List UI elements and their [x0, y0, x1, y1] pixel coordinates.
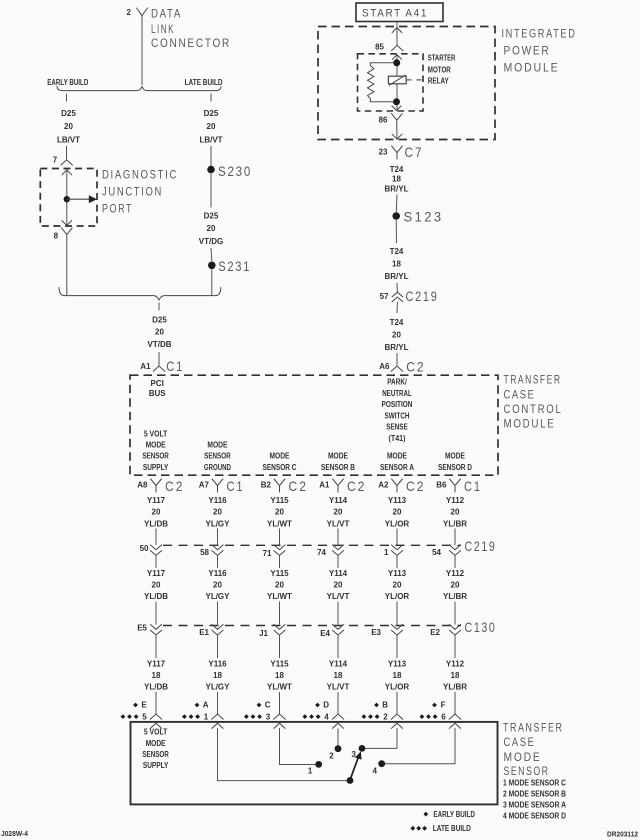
svg-text:SENSOR: SENSOR	[204, 452, 231, 461]
svg-text:Y117: Y117	[147, 659, 166, 668]
connector C130 pin E2 (double chevron)	[430, 602, 460, 659]
svg-text:RELAY: RELAY	[428, 77, 450, 86]
connector C219 pin 57 (double chevron up)	[392, 292, 403, 297]
svg-text:18: 18	[152, 671, 161, 680]
relay coil (rectangle with diagonal)	[388, 76, 406, 84]
svg-text:MODE: MODE	[207, 441, 228, 450]
svg-text:MODE: MODE	[146, 739, 167, 748]
connector C7 (Y)	[392, 146, 403, 159]
svg-text:J028W-4: J028W-4	[1, 829, 28, 838]
svg-text:20: 20	[207, 122, 216, 131]
svg-text:MOTOR: MOTOR	[428, 66, 451, 75]
relay wire bottom	[396, 84, 398, 111]
svg-text:C2: C2	[406, 478, 426, 494]
svg-text:A8: A8	[137, 481, 148, 490]
connector C130 pin E5 (double chevron)	[137, 602, 161, 659]
contact 4 dot	[378, 760, 385, 767]
svg-text:1: 1	[308, 766, 313, 775]
arrow into IPM top edge	[392, 28, 402, 33]
svg-text:C2: C2	[289, 478, 309, 494]
wire label T24 18 BR/YL (1)	[385, 165, 409, 194]
connector C219 pin 1 (double chevron)	[384, 529, 403, 569]
connector C219 pin 58 (double chevron)	[200, 529, 223, 569]
svg-text:MODE: MODE	[445, 452, 466, 461]
wire into sensor pin A	[212, 692, 224, 728]
svg-text:YL/WT: YL/WT	[267, 519, 292, 528]
module pin A7 connector C1 (Y)	[199, 478, 245, 494]
integrated power module dashed box	[318, 27, 495, 140]
svg-text:YL/WT: YL/WT	[267, 592, 292, 601]
contact 1 dot	[315, 761, 322, 768]
sensor pin B/2 labels with build diamonds	[362, 701, 389, 722]
svg-text:20: 20	[213, 581, 222, 590]
wiper lever with arrowhead	[350, 757, 359, 781]
connector pin 2 Y symbol	[137, 8, 148, 20]
connector C219 pin 50 (double chevron)	[140, 529, 162, 569]
svg-text:CASE: CASE	[504, 389, 536, 401]
svg-text:S230: S230	[218, 163, 252, 179]
label TRANSFER CASE MODE SENSOR	[503, 722, 564, 778]
wire late build down to merge brace	[211, 269, 213, 295]
svg-text:85: 85	[375, 43, 384, 52]
svg-text:SENSOR B: SENSOR B	[321, 463, 355, 472]
svg-text:20: 20	[334, 581, 343, 590]
svg-text:E2: E2	[430, 628, 440, 637]
svg-text:7: 7	[53, 156, 58, 165]
svg-text:3 MODE SENSOR A: 3 MODE SENSOR A	[503, 800, 566, 809]
svg-text:BR/YL: BR/YL	[385, 272, 409, 281]
svg-text:LB/VT: LB/VT	[199, 135, 222, 144]
svg-text:C1: C1	[227, 478, 245, 494]
svg-text:74: 74	[317, 548, 326, 557]
svg-text:B6: B6	[436, 481, 447, 490]
svg-text:T24: T24	[390, 247, 404, 256]
wiper pivot dot	[347, 777, 354, 784]
svg-text:Y112: Y112	[446, 569, 465, 578]
svg-text:CONTROL: CONTROL	[504, 404, 563, 416]
svg-text:YL/BR: YL/BR	[443, 592, 467, 601]
module pin B2 connector C2 (Y)	[261, 478, 308, 494]
sensor wire to contact 1	[280, 728, 319, 764]
svg-text:Y112: Y112	[446, 496, 465, 505]
svg-text:57: 57	[380, 292, 389, 301]
pin 7 entry connector (inverted Y)	[61, 160, 73, 165]
svg-text:D25: D25	[61, 109, 76, 118]
label DIAGNOSTIC JUNCTION PORT	[102, 169, 178, 215]
svg-text:T24: T24	[390, 165, 404, 174]
svg-text:6: 6	[441, 712, 446, 721]
svg-text:SUPPLY: SUPPLY	[143, 761, 169, 770]
svg-text:MODULE: MODULE	[504, 418, 556, 430]
svg-text:A: A	[203, 701, 209, 710]
svg-text:20: 20	[392, 330, 401, 339]
svg-text:86: 86	[379, 116, 388, 125]
label PARK/NEUTRAL POSITION SWITCH SENSE (T41)	[382, 378, 413, 444]
svg-text:VT/DB: VT/DB	[148, 340, 172, 349]
svg-text:C7: C7	[405, 144, 424, 160]
svg-text:J1: J1	[259, 629, 268, 638]
svg-text:NEUTRAL: NEUTRAL	[382, 389, 412, 398]
svg-text:MODE: MODE	[146, 441, 167, 450]
svg-text:Y114: Y114	[329, 659, 348, 668]
svg-text:C2: C2	[347, 478, 367, 494]
svg-text:YL/GY: YL/GY	[205, 683, 230, 692]
svg-text:DR203112: DR203112	[607, 829, 638, 838]
wire stub below merge	[158, 303, 160, 311]
svg-text:20: 20	[393, 508, 402, 517]
svg-text:20: 20	[275, 581, 284, 590]
transfer case mode sensor box	[131, 722, 498, 805]
module pin B6 connector C1 (Y)	[436, 478, 482, 494]
wire down to C219 pin 57	[396, 283, 398, 292]
pin 86 exit arrow inside relay box	[392, 106, 401, 111]
svg-text:S231: S231	[218, 258, 251, 274]
svg-text:Y115: Y115	[270, 496, 289, 505]
svg-text:TRANSFER: TRANSFER	[504, 375, 562, 387]
svg-text:C219: C219	[406, 288, 439, 304]
svg-text:2 MODE SENSOR B: 2 MODE SENSOR B	[503, 789, 566, 798]
wire labels (18 gauge)	[144, 659, 467, 691]
C219 connector dashed row line	[163, 544, 461, 546]
svg-text:SUPPLY: SUPPLY	[143, 463, 169, 472]
svg-text:1: 1	[384, 548, 389, 557]
wire labels (20 gauge, below C219)	[144, 569, 467, 601]
wire below S123	[395, 220, 397, 243]
svg-text:D25: D25	[204, 212, 219, 221]
svg-text:PORT: PORT	[102, 203, 133, 215]
wire label T24 18 BR/YL (2)	[385, 247, 409, 281]
wire below C219 pin 57	[396, 302, 398, 313]
pin 85 entry arrow inside relay box	[392, 55, 401, 60]
wire from START A41 into integrated power module	[396, 22, 398, 46]
svg-text:18: 18	[451, 671, 460, 680]
sensor ground wire to wiper pivot	[218, 728, 350, 780]
svg-text:C219: C219	[465, 538, 497, 554]
wire down to splice S123	[395, 195, 398, 213]
svg-text:Y116: Y116	[208, 659, 227, 668]
svg-text:E3: E3	[371, 628, 381, 637]
pin 86 connector (Y)	[391, 114, 402, 127]
svg-text:20: 20	[155, 328, 164, 337]
connector C130 pin E3 (double chevron)	[371, 602, 402, 659]
svg-text:18: 18	[392, 260, 401, 269]
wire from data link connector down	[141, 20, 143, 85]
relay coil resistor zigzag	[368, 63, 374, 102]
svg-text:CASE: CASE	[504, 737, 536, 749]
sensor pin F/6 labels with build diamonds	[420, 701, 447, 722]
svg-text:4: 4	[373, 766, 378, 775]
svg-text:D25: D25	[152, 315, 167, 324]
legend mode sensor contacts	[503, 778, 566, 820]
svg-text:20: 20	[451, 581, 460, 590]
legend LATE BUILD diamonds	[410, 824, 471, 833]
svg-text:71: 71	[263, 549, 272, 558]
svg-text:20: 20	[213, 508, 222, 517]
svg-text:YL/VT: YL/VT	[327, 683, 350, 692]
svg-text:BR/YL: BR/YL	[385, 185, 409, 194]
splice S123	[392, 212, 400, 220]
connector C2 at pin A6 (inverted Y)	[391, 366, 403, 371]
relay wire top	[396, 55, 398, 77]
svg-text:LINK: LINK	[151, 24, 175, 36]
svg-text:SENSOR A: SENSOR A	[380, 463, 414, 472]
svg-text:YL/OR: YL/OR	[385, 519, 410, 528]
exit arrow at IPM bottom edge	[392, 134, 402, 139]
svg-text:T24: T24	[390, 318, 404, 327]
svg-text:18: 18	[393, 671, 402, 680]
svg-text:PARK/: PARK/	[387, 378, 407, 387]
label PCI BUS	[149, 379, 167, 398]
relay bottom junction dot	[393, 98, 400, 105]
svg-text:Y113: Y113	[388, 659, 407, 668]
connector C130 pin E1 (double chevron)	[199, 602, 223, 659]
svg-text:PCI: PCI	[151, 379, 164, 388]
svg-text:DATA: DATA	[151, 8, 182, 20]
svg-text:INTEGRATED: INTEGRATED	[502, 29, 577, 41]
svg-text:1 MODE SENSOR C: 1 MODE SENSOR C	[503, 778, 566, 787]
svg-text:50: 50	[140, 544, 149, 553]
connector C1 at pin A1 (inverted Y)	[153, 366, 165, 371]
svg-text:YL/GY: YL/GY	[205, 592, 230, 601]
sensor wire to contact 4	[382, 728, 455, 763]
svg-text:20: 20	[451, 508, 460, 517]
svg-text:C130: C130	[465, 619, 497, 635]
svg-text:YL/DB: YL/DB	[144, 592, 168, 601]
svg-text:START A41: START A41	[362, 8, 428, 20]
C130 connector dashed row line	[163, 625, 461, 627]
svg-text:POWER: POWER	[504, 45, 551, 57]
svg-text:A2: A2	[378, 481, 389, 490]
wire from relay to IPM bottom edge	[396, 127, 398, 139]
svg-text:A6: A6	[379, 362, 390, 371]
resistor bottom lead	[370, 101, 393, 103]
module pin A2 connector C2 (Y)	[378, 478, 425, 494]
junction dot inside diagnostic junction port	[64, 196, 70, 202]
svg-text:23: 23	[379, 147, 388, 156]
svg-text:8: 8	[54, 231, 59, 240]
wire label D25 20 VT/DB	[148, 315, 172, 349]
svg-text:B2: B2	[261, 481, 272, 490]
svg-text:BUS: BUS	[149, 389, 167, 398]
brace splitting early/late build branches	[57, 87, 221, 91]
wire down to module pin A6	[396, 353, 398, 366]
svg-text:YL/DB: YL/DB	[144, 683, 168, 692]
sensor wire to contact 2	[337, 728, 339, 748]
svg-text:MODE: MODE	[504, 752, 542, 764]
connector C130 pin J1 (double chevron)	[259, 602, 285, 659]
svg-text:MODE: MODE	[328, 452, 349, 461]
svg-text:3: 3	[266, 712, 271, 721]
svg-text:2: 2	[329, 752, 334, 761]
svg-text:5: 5	[142, 712, 147, 721]
wire into sensor pin B	[391, 692, 403, 728]
svg-text:Y114: Y114	[329, 496, 348, 505]
svg-text:Y115: Y115	[270, 659, 289, 668]
svg-text:E5: E5	[137, 623, 147, 632]
label 5 VOLT MODE SENSOR SUPPLY (in sensor)	[142, 728, 169, 771]
svg-text:JUNCTION: JUNCTION	[102, 186, 163, 198]
svg-text:F: F	[441, 701, 446, 710]
svg-text:20: 20	[152, 508, 161, 517]
svg-text:Y116: Y116	[208, 496, 227, 505]
wire label D25 20 VT/DG	[199, 212, 223, 246]
wire label D25 20 LB/VT (early)	[57, 109, 80, 144]
label DATA LINK CONNECTOR	[151, 8, 231, 50]
connector C219 pin 71 (double chevron)	[263, 529, 286, 569]
svg-text:CONNECTOR: CONNECTOR	[151, 38, 231, 50]
svg-text:POSITION: POSITION	[382, 400, 413, 409]
svg-text:SENSOR: SENSOR	[142, 750, 169, 759]
wire down to module pin A1	[158, 352, 160, 366]
splice S230	[207, 166, 215, 174]
svg-text:SENSOR C: SENSOR C	[263, 463, 297, 472]
contact 2 dot	[335, 745, 342, 752]
svg-text:YL/DB: YL/DB	[144, 519, 168, 528]
svg-text:SENSOR D: SENSOR D	[438, 463, 472, 472]
svg-text:Y117: Y117	[147, 496, 166, 505]
brace merging branches	[59, 288, 221, 300]
svg-text:DIAGNOSTIC: DIAGNOSTIC	[102, 169, 178, 181]
connector C130 pin E4 (double chevron)	[320, 602, 343, 659]
arrow from junction to port (right)	[67, 198, 92, 200]
svg-text:B: B	[382, 701, 388, 710]
svg-text:A1: A1	[140, 362, 151, 371]
svg-text:4 MODE SENSOR D: 4 MODE SENSOR D	[503, 811, 566, 820]
contact 3 dot	[359, 745, 366, 752]
svg-text:SWITCH: SWITCH	[385, 411, 410, 420]
label TRANSFER CASE CONTROL MODULE	[504, 375, 563, 431]
wire label T24 20 BR/YL	[385, 318, 409, 352]
svg-text:Y115: Y115	[270, 569, 289, 578]
sensor wire to contact 3	[361, 728, 397, 748]
svg-text:C: C	[265, 701, 271, 710]
connector C219 pin 54 (double chevron)	[432, 529, 461, 569]
svg-text:5 VOLT: 5 VOLT	[144, 429, 168, 438]
svg-text:S123: S123	[404, 209, 444, 225]
wire late build down to splice S230	[210, 146, 212, 166]
svg-text:LATE BUILD: LATE BUILD	[433, 824, 471, 833]
START A41 box	[356, 3, 443, 22]
diagnostic junction port dashed box	[40, 169, 97, 227]
svg-text:YL/VT: YL/VT	[327, 519, 350, 528]
starter motor relay dashed box	[358, 54, 424, 111]
svg-text:18: 18	[334, 671, 343, 680]
svg-text:4: 4	[324, 712, 329, 721]
svg-text:SENSE: SENSE	[386, 423, 408, 432]
module output labels	[142, 429, 472, 472]
legend EARLY BUILD diamond	[423, 810, 475, 819]
transfer case control module dashed box	[130, 375, 498, 475]
resistor top lead	[370, 62, 394, 64]
svg-text:YL/GY: YL/GY	[205, 519, 230, 528]
svg-text:LATE BUILD: LATE BUILD	[185, 78, 223, 87]
svg-text:54: 54	[432, 548, 441, 557]
svg-text:E1: E1	[199, 628, 209, 637]
svg-text:LB/VT: LB/VT	[57, 135, 80, 144]
wire into sensor pin D	[332, 692, 344, 728]
relay top junction dot	[393, 59, 400, 66]
svg-text:20: 20	[393, 581, 402, 590]
splice S231	[208, 262, 216, 270]
svg-text:YL/OR: YL/OR	[385, 683, 410, 692]
wire stub late build	[210, 94, 212, 102]
svg-text:A7: A7	[199, 481, 210, 490]
wire early build down to merge brace	[66, 241, 68, 295]
svg-text:C2: C2	[406, 359, 426, 375]
svg-text:Y113: Y113	[388, 569, 407, 578]
svg-text:Y114: Y114	[329, 569, 348, 578]
svg-text:18: 18	[213, 671, 222, 680]
svg-text:EARLY BUILD: EARLY BUILD	[47, 78, 88, 87]
svg-text:EARLY BUILD: EARLY BUILD	[433, 810, 475, 819]
svg-text:MODE: MODE	[270, 452, 291, 461]
svg-text:C2: C2	[165, 478, 185, 494]
svg-text:VT/DG: VT/DG	[199, 237, 223, 246]
wire inside diagnostic junction port	[66, 170, 68, 226]
svg-text:MODULE: MODULE	[504, 62, 560, 74]
svg-text:Y112: Y112	[446, 659, 465, 668]
wire into sensor pin F	[449, 692, 461, 728]
pin 8 exit arrow inside box	[62, 221, 72, 226]
svg-text:C1: C1	[464, 478, 482, 494]
sensor pin E/5 labels with build diamonds	[121, 701, 148, 722]
label STARTER MOTOR RELAY	[428, 54, 456, 86]
svg-text:2: 2	[383, 712, 388, 721]
svg-text:BR/YL: BR/YL	[385, 343, 409, 352]
sensor pin D/4 labels with build diamonds	[303, 701, 330, 722]
wire into sensor pin C	[274, 692, 286, 728]
svg-text:D25: D25	[204, 109, 219, 118]
wire labels (20 gauge, above C219)	[144, 496, 467, 528]
svg-text:YL/WT: YL/WT	[267, 683, 292, 692]
svg-text:STARTER: STARTER	[428, 54, 456, 63]
relay linkage dashes	[406, 79, 411, 81]
svg-text:MODE: MODE	[387, 452, 408, 461]
sensor pin C/3 labels with build diamonds	[244, 701, 271, 722]
pin 85 connector (inverted Y)	[391, 45, 403, 50]
wire down to splice S231	[210, 248, 213, 261]
svg-text:1: 1	[204, 712, 209, 721]
module pin A1 connector C2 (Y)	[319, 478, 366, 494]
svg-text:D: D	[323, 701, 329, 710]
svg-text:C1: C1	[166, 358, 184, 374]
svg-text:YL/BR: YL/BR	[443, 519, 467, 528]
svg-text:SENSOR: SENSOR	[142, 452, 169, 461]
svg-text:18: 18	[275, 671, 284, 680]
svg-text:E4: E4	[320, 629, 330, 638]
svg-text:2: 2	[126, 8, 131, 17]
wire early build down to pin 7	[66, 146, 68, 160]
pin 8 exit connector (Y)	[61, 228, 72, 241]
svg-text:SENSOR: SENSOR	[504, 766, 550, 778]
svg-text:5 VOLT: 5 VOLT	[144, 728, 168, 737]
svg-text:20: 20	[64, 122, 73, 131]
pin 7 entry arrow inside box	[62, 170, 72, 175]
sensor pin A/1 labels with build diamonds	[182, 701, 209, 722]
svg-text:TRANSFER: TRANSFER	[503, 722, 564, 734]
label INTEGRATED POWER MODULE	[502, 29, 577, 75]
svg-text:YL/OR: YL/OR	[385, 592, 410, 601]
module pin A8 connector C2 (Y)	[137, 478, 184, 494]
connector C219 pin 74 (double chevron)	[317, 529, 344, 569]
svg-text:A1: A1	[319, 481, 330, 490]
svg-text:20: 20	[207, 224, 216, 233]
svg-text:20: 20	[334, 508, 343, 517]
svg-text:Y116: Y116	[208, 569, 227, 578]
wire from S230 down	[210, 174, 212, 208]
wire stub early build	[66, 94, 68, 102]
svg-text:GROUND: GROUND	[204, 463, 231, 472]
